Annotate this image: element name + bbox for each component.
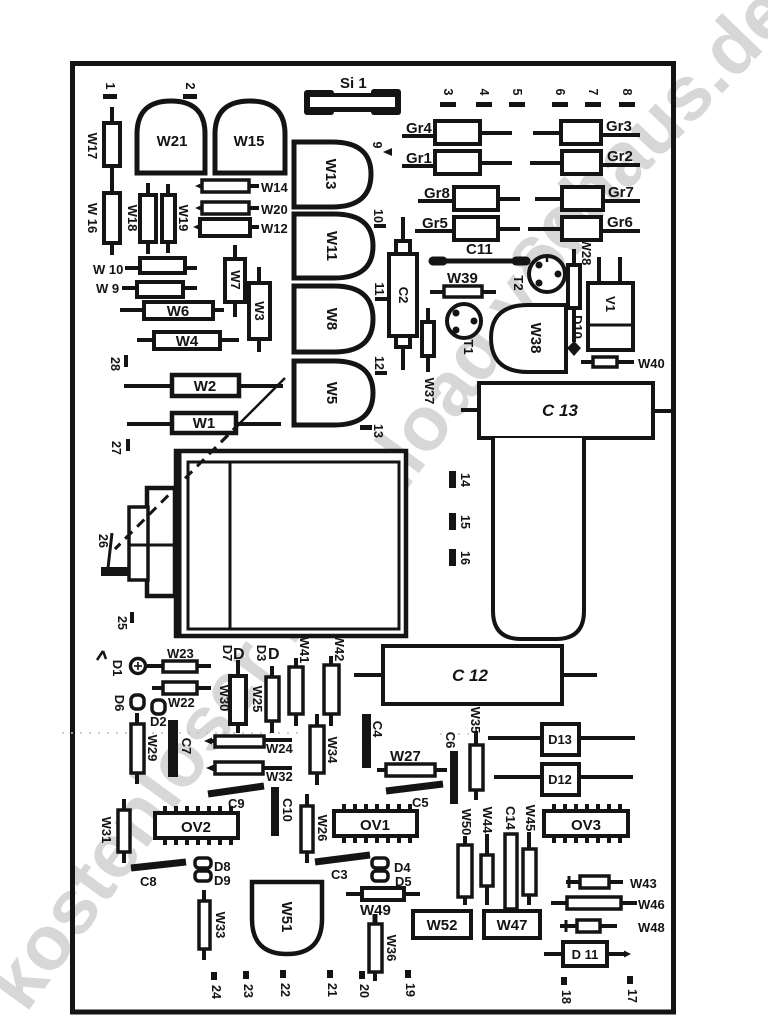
opamp OV3 bbox=[544, 804, 628, 843]
pin 7 bbox=[585, 89, 601, 107]
svg-text:W36: W36 bbox=[384, 935, 399, 962]
resistor W41 bbox=[289, 637, 312, 726]
svg-text:W38: W38 bbox=[527, 323, 544, 354]
pin 8 bbox=[619, 89, 635, 107]
pin 10 bbox=[371, 209, 386, 228]
svg-text:D6: D6 bbox=[112, 695, 127, 712]
svg-text:W22: W22 bbox=[168, 695, 195, 710]
svg-text:C10: C10 bbox=[280, 798, 295, 822]
rectifier Gr2 bbox=[530, 148, 640, 174]
svg-text:24: 24 bbox=[209, 985, 223, 999]
svg-text:8: 8 bbox=[620, 89, 634, 96]
svg-text:W14: W14 bbox=[261, 180, 289, 195]
diode W15 bbox=[215, 101, 285, 173]
rectifier Gr1 bbox=[402, 150, 512, 174]
svg-text:W24: W24 bbox=[266, 741, 294, 756]
resistor W34 bbox=[310, 714, 340, 785]
resistor W3 bbox=[249, 267, 270, 352]
board outline bbox=[73, 64, 674, 1013]
svg-text:W6: W6 bbox=[167, 303, 190, 320]
resistor W46 bbox=[551, 897, 665, 912]
diode W38 bbox=[491, 305, 566, 372]
svg-text:W8: W8 bbox=[323, 308, 340, 331]
resistor W24 bbox=[204, 736, 294, 756]
resistor W10 bbox=[93, 258, 197, 277]
svg-text:D10: D10 bbox=[570, 315, 585, 339]
pin 15 bbox=[449, 513, 472, 530]
resistor W36 bbox=[369, 914, 399, 981]
svg-text:W 10: W 10 bbox=[93, 262, 123, 277]
svg-text:W41: W41 bbox=[297, 637, 312, 664]
pin 18 bbox=[559, 977, 573, 1004]
svg-text:C2: C2 bbox=[396, 287, 411, 304]
svg-text:26: 26 bbox=[96, 534, 110, 548]
resistor W27 bbox=[377, 748, 447, 776]
svg-text:18: 18 bbox=[559, 990, 573, 1004]
svg-text:7: 7 bbox=[586, 89, 600, 96]
svg-text:W 9: W 9 bbox=[96, 281, 119, 296]
resistor W17 bbox=[85, 107, 120, 181]
pin 12 bbox=[372, 356, 387, 375]
svg-text:W42: W42 bbox=[332, 635, 347, 662]
svg-text:W48: W48 bbox=[638, 920, 665, 935]
resistor W9 bbox=[96, 281, 197, 297]
svg-text:11: 11 bbox=[372, 282, 386, 295]
svg-text:C14: C14 bbox=[503, 806, 518, 831]
capacitor C11 bbox=[433, 241, 526, 261]
capacitor C9 bbox=[208, 786, 264, 811]
svg-text:W28: W28 bbox=[579, 239, 594, 266]
capacitor C3 bbox=[315, 855, 370, 882]
svg-text:W15: W15 bbox=[234, 133, 265, 150]
pin 28 bbox=[108, 355, 128, 371]
resistor W28 bbox=[568, 239, 594, 342]
pin 21 bbox=[325, 970, 339, 997]
svg-text:W26: W26 bbox=[315, 815, 330, 842]
transformer inner bbox=[188, 462, 399, 629]
resistor W22 bbox=[152, 682, 211, 710]
transformer outer bbox=[176, 451, 406, 636]
svg-text:Gr2: Gr2 bbox=[607, 148, 633, 165]
svg-text:27: 27 bbox=[109, 441, 123, 455]
svg-text:Gr7: Gr7 bbox=[608, 184, 634, 201]
fuse Si1 bbox=[304, 75, 401, 115]
svg-text:10: 10 bbox=[371, 209, 385, 223]
svg-text:W45: W45 bbox=[523, 805, 538, 832]
diode W51 bbox=[252, 882, 322, 954]
resistor W16 bbox=[85, 181, 120, 255]
svg-text:5: 5 bbox=[510, 89, 524, 96]
svg-text:14: 14 bbox=[458, 473, 472, 487]
svg-text:W51: W51 bbox=[278, 902, 295, 933]
svg-text:2: 2 bbox=[183, 83, 197, 90]
resistor W49 bbox=[346, 888, 420, 919]
resistor W12 bbox=[193, 219, 288, 236]
svg-text:W50: W50 bbox=[459, 809, 474, 836]
svg-text:W12: W12 bbox=[261, 221, 288, 236]
diode W8 bbox=[294, 286, 373, 352]
svg-text:3: 3 bbox=[441, 89, 455, 96]
svg-text:D2: D2 bbox=[150, 714, 167, 729]
resistor W45 bbox=[523, 805, 538, 905]
pin 24 bbox=[209, 972, 223, 999]
connector divider bbox=[130, 544, 176, 547]
pin 9 bbox=[370, 142, 392, 156]
svg-text:W3: W3 bbox=[252, 301, 267, 321]
resistor W4 bbox=[137, 332, 239, 350]
svg-text:13: 13 bbox=[371, 424, 385, 438]
pin 13 bbox=[360, 424, 385, 438]
svg-text:W13: W13 bbox=[322, 159, 339, 190]
capacitor C12 bbox=[354, 646, 597, 704]
svg-text:W37: W37 bbox=[422, 378, 437, 405]
rectifier Gr4 bbox=[402, 120, 512, 144]
resistor W32 bbox=[206, 762, 293, 784]
svg-text:D12: D12 bbox=[548, 772, 572, 787]
diode D10 bbox=[567, 315, 585, 356]
svg-text:W2: W2 bbox=[194, 378, 217, 395]
svg-text:28: 28 bbox=[108, 357, 122, 371]
resistor W48 bbox=[560, 920, 665, 935]
svg-text:19: 19 bbox=[403, 983, 417, 997]
svg-text:D13: D13 bbox=[548, 732, 572, 747]
svg-text:V1: V1 bbox=[603, 296, 618, 312]
pin 20 bbox=[357, 971, 371, 998]
svg-text:12: 12 bbox=[372, 356, 386, 370]
opamp OV2 bbox=[155, 806, 238, 845]
svg-text:W35: W35 bbox=[468, 707, 483, 734]
resistor W19 bbox=[162, 184, 191, 253]
resistor W47 bbox=[484, 911, 540, 938]
svg-text:17: 17 bbox=[625, 989, 639, 1003]
pin 4 bbox=[476, 89, 492, 107]
svg-text:T1: T1 bbox=[461, 339, 476, 354]
pin 6 bbox=[552, 89, 568, 107]
svg-text:W21: W21 bbox=[157, 133, 188, 150]
svg-text:D4: D4 bbox=[394, 860, 411, 875]
resistor W52 bbox=[413, 911, 471, 938]
resistor W23 bbox=[146, 646, 211, 672]
svg-text:W18: W18 bbox=[125, 205, 140, 232]
svg-text:W43: W43 bbox=[630, 876, 657, 891]
svg-text:W33: W33 bbox=[213, 912, 228, 939]
svg-text:C4: C4 bbox=[370, 721, 385, 738]
svg-text:W5: W5 bbox=[323, 382, 340, 405]
capacitor C14 bbox=[503, 806, 518, 909]
diode D9 bbox=[195, 871, 231, 888]
svg-text:23: 23 bbox=[241, 984, 255, 998]
transformer divider bbox=[229, 462, 232, 629]
diode D2 bbox=[150, 700, 167, 729]
svg-text:C5: C5 bbox=[412, 795, 429, 810]
svg-text:OV3: OV3 bbox=[571, 817, 601, 834]
svg-text:D1: D1 bbox=[110, 660, 125, 677]
rectifier Gr3 bbox=[533, 118, 640, 144]
svg-text:W 16: W 16 bbox=[85, 203, 100, 233]
svg-text:W23: W23 bbox=[167, 646, 194, 661]
svg-text:W34: W34 bbox=[325, 737, 340, 765]
rectifier Gr6 bbox=[528, 214, 640, 240]
resistor W1 bbox=[127, 413, 281, 433]
pin 17 bbox=[625, 976, 639, 1003]
svg-text:4: 4 bbox=[477, 89, 491, 96]
svg-text:15: 15 bbox=[458, 515, 472, 529]
pin 26 bbox=[96, 533, 132, 576]
capacitor C6 bbox=[443, 732, 458, 804]
capacitor C13 can bbox=[493, 438, 584, 639]
transistor T2 bbox=[511, 256, 565, 292]
diode D4 bbox=[372, 858, 411, 875]
svg-text:C3: C3 bbox=[331, 867, 348, 882]
svg-text:9: 9 bbox=[370, 142, 384, 149]
dashed diagonal wire overlay bbox=[115, 423, 240, 549]
svg-text:W32: W32 bbox=[266, 769, 293, 784]
resistor W42 bbox=[324, 635, 347, 726]
svg-text:W52: W52 bbox=[427, 917, 458, 934]
svg-text:W4: W4 bbox=[176, 333, 199, 350]
svg-text:D3: D3 bbox=[254, 645, 269, 662]
svg-text:OV2: OV2 bbox=[181, 819, 211, 836]
regulator V1 bbox=[588, 257, 633, 350]
svg-text:16: 16 bbox=[458, 551, 472, 565]
diode D8 bbox=[195, 858, 231, 874]
svg-text:Gr6: Gr6 bbox=[607, 214, 633, 231]
resistor W20 bbox=[195, 202, 288, 217]
svg-text:22: 22 bbox=[278, 983, 292, 997]
connector outer bbox=[147, 488, 175, 596]
resistor W40 bbox=[581, 356, 665, 371]
svg-text:D9: D9 bbox=[214, 873, 231, 888]
svg-text:D 11: D 11 bbox=[572, 947, 599, 962]
connector inner bbox=[129, 507, 148, 580]
svg-text:6: 6 bbox=[553, 89, 567, 96]
svg-text:W1: W1 bbox=[193, 415, 216, 432]
diode D3 bbox=[254, 645, 280, 663]
svg-text:C6: C6 bbox=[443, 732, 458, 749]
svg-text:OV1: OV1 bbox=[360, 817, 390, 834]
svg-text:W47: W47 bbox=[497, 917, 528, 934]
diode W5 bbox=[294, 361, 373, 425]
diode D5 bbox=[372, 871, 412, 889]
svg-text:D8: D8 bbox=[214, 859, 231, 874]
resistor W14 bbox=[195, 180, 289, 195]
svg-text:C11: C11 bbox=[466, 241, 493, 258]
diode W13 bbox=[294, 142, 371, 207]
svg-text:C 13: C 13 bbox=[542, 401, 578, 420]
svg-text:W31: W31 bbox=[99, 817, 114, 844]
pin 22 bbox=[278, 970, 292, 997]
svg-text:W7: W7 bbox=[228, 270, 243, 290]
capacitor C10 bbox=[271, 787, 295, 836]
pin 5 bbox=[509, 89, 525, 107]
pin 23 bbox=[241, 971, 255, 998]
diode D12 bbox=[494, 764, 633, 795]
pin 2 bbox=[183, 83, 197, 99]
diode D7 bbox=[220, 645, 245, 663]
svg-text:C7: C7 bbox=[179, 738, 194, 755]
svg-text:20: 20 bbox=[357, 984, 371, 998]
resistor W35 bbox=[468, 707, 483, 800]
svg-text:Si 1: Si 1 bbox=[340, 75, 367, 92]
svg-text:1: 1 bbox=[103, 83, 117, 90]
resistor W18 bbox=[125, 183, 156, 254]
fold line bbox=[62, 732, 300, 734]
svg-text:W46: W46 bbox=[638, 897, 665, 912]
diode D11 bbox=[544, 942, 631, 966]
diode D13 bbox=[488, 724, 635, 755]
opamp OV1 bbox=[334, 804, 417, 843]
pin 27 bbox=[109, 439, 130, 455]
transistor T1 bbox=[447, 304, 481, 355]
svg-text:D: D bbox=[268, 646, 280, 663]
rectifier Gr8 bbox=[418, 185, 520, 210]
dashed diagonal wire bbox=[240, 378, 285, 423]
capacitor C5 bbox=[386, 784, 443, 810]
pin 25 bbox=[115, 612, 134, 630]
svg-text:Gr3: Gr3 bbox=[606, 118, 632, 135]
svg-text:W17: W17 bbox=[85, 133, 100, 160]
diode D6 bbox=[112, 695, 144, 712]
svg-text:W25: W25 bbox=[250, 686, 265, 713]
capacitor C7 bbox=[168, 720, 194, 777]
svg-text:W11: W11 bbox=[323, 231, 340, 261]
svg-text:C8: C8 bbox=[140, 874, 157, 889]
resistor W26 bbox=[301, 794, 330, 863]
resistor W43 bbox=[566, 876, 657, 891]
resistor W2 bbox=[124, 375, 283, 396]
resistor W25 bbox=[250, 666, 279, 733]
pin 11 bbox=[372, 282, 387, 301]
resistor W50 bbox=[458, 809, 474, 905]
pin 19 bbox=[403, 970, 417, 997]
svg-text:W44: W44 bbox=[480, 807, 495, 835]
svg-text:T2: T2 bbox=[511, 275, 526, 290]
resistor W7 bbox=[225, 245, 245, 317]
svg-text:25: 25 bbox=[115, 616, 129, 630]
capacitor C2 bbox=[389, 217, 417, 370]
capacitor C8 bbox=[131, 862, 186, 889]
pin 16 bbox=[449, 549, 472, 566]
diode W11 bbox=[294, 214, 373, 278]
resistor W31 bbox=[99, 799, 130, 863]
resistor W30 bbox=[217, 660, 246, 733]
rectifier Gr7 bbox=[535, 184, 640, 210]
diode D1 bbox=[97, 651, 146, 676]
resistor W44 bbox=[480, 807, 495, 905]
resistor W37 bbox=[422, 308, 437, 404]
diode W21 bbox=[137, 101, 205, 173]
svg-text:C 12: C 12 bbox=[452, 666, 488, 685]
resistor W39 bbox=[430, 270, 496, 297]
resistor W33 bbox=[199, 890, 228, 960]
pin 1 bbox=[103, 83, 117, 99]
capacitor C4 bbox=[362, 714, 385, 768]
svg-text:W29: W29 bbox=[145, 735, 160, 762]
pin 14 bbox=[449, 471, 472, 488]
rectifier Gr5 bbox=[415, 215, 520, 240]
capacitor C13 bbox=[461, 383, 673, 438]
svg-text:21: 21 bbox=[325, 983, 339, 997]
svg-text:W19: W19 bbox=[176, 205, 191, 232]
svg-text:W40: W40 bbox=[638, 356, 665, 371]
svg-text:W20: W20 bbox=[261, 202, 288, 217]
resistor W6 bbox=[120, 302, 224, 320]
pin 3 bbox=[440, 89, 456, 107]
resistor W29 bbox=[131, 713, 160, 784]
